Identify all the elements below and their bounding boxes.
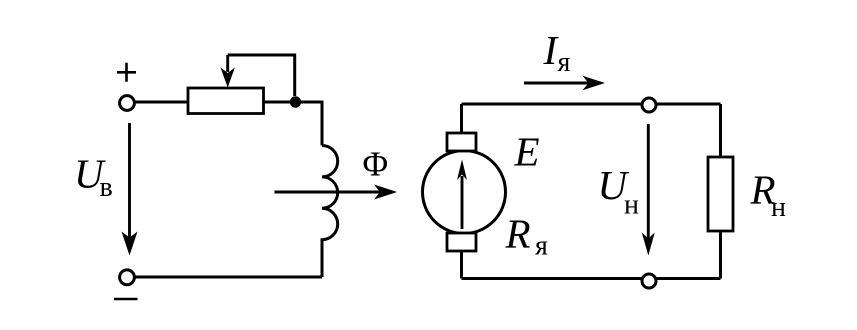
svg-text:E: E — [514, 129, 540, 175]
svg-text:н: н — [624, 190, 639, 221]
svg-text:R: R — [505, 211, 531, 257]
svg-text:я: я — [535, 231, 548, 262]
svg-text:я: я — [558, 47, 571, 78]
svg-text:в: в — [100, 172, 113, 203]
svg-text:н: н — [771, 192, 786, 223]
svg-text:Φ: Φ — [363, 145, 389, 184]
